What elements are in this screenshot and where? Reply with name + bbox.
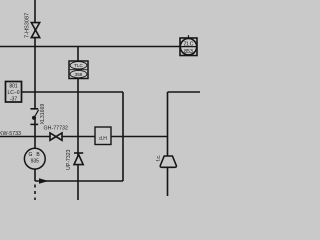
wire horizontal main header line y=46.5 xyxy=(0,46,180,48)
wire vertical line x=78 from header to bottom xyxy=(77,47,79,201)
instrument ZLC 853 (circle in square) xyxy=(180,35,197,55)
wire horizontal signal line y=92 from controller box xyxy=(22,91,124,93)
instrument bubble G B 935 xyxy=(24,148,45,169)
svg-text:UP-7323: UP-7323 xyxy=(66,149,72,170)
controller box 801 LC-0 -37 xyxy=(6,82,22,103)
svg-text:853: 853 xyxy=(184,49,193,55)
svg-text:d.H: d.H xyxy=(99,136,107,142)
instrument TLC 358 (shared display box) xyxy=(69,61,88,79)
svg-text:935: 935 xyxy=(31,158,40,164)
wire dashed vertical continuation below x=35 xyxy=(34,181,36,200)
flow arrow on bottom line xyxy=(39,178,49,184)
wire horizontal process line y=137 xyxy=(0,136,168,138)
wire vertical main line x=35 top segment xyxy=(34,0,36,109)
svg-text:XL31669: XL31669 xyxy=(40,104,46,125)
svg-text:358: 358 xyxy=(75,72,83,77)
seal pot / diaphragm symbol on right line xyxy=(160,156,176,167)
svg-text:801: 801 xyxy=(9,84,18,90)
wire vertical drop x=167.5 from y=92 to seal pot xyxy=(167,92,169,156)
svg-text:f.c.: f.c. xyxy=(156,155,162,162)
svg-text:TLC: TLC xyxy=(74,63,83,68)
check valve UP-7323 (triangle) xyxy=(74,153,83,165)
wire horizontal line y=92 right segment to edge xyxy=(168,91,201,93)
svg-text:ZLC: ZLC xyxy=(184,41,194,47)
svg-text:GH-77732: GH-77732 xyxy=(44,126,68,132)
svg-text:KW-5733: KW-5733 xyxy=(0,131,21,137)
valve 7-HS3087 (vertical bowtie) xyxy=(31,23,39,38)
solenoid XL31669 on line x=35 xyxy=(30,109,38,125)
function box d.H xyxy=(95,127,111,145)
svg-text:LC–0: LC–0 xyxy=(8,90,20,96)
svg-text:G B: G B xyxy=(29,152,42,158)
wire vertical riser x=123 xyxy=(122,92,124,181)
svg-text:-37: -37 xyxy=(10,97,17,103)
wire horizontal bottom line y=181 xyxy=(35,180,123,182)
svg-text:7-HS3087: 7-HS3087 xyxy=(25,13,31,38)
wire vertical main line x=35 lower segment xyxy=(34,118,36,182)
valve GH-77732 (horizontal bowtie) xyxy=(50,133,62,140)
wire vertical below seal pot x=167.5 xyxy=(167,166,169,196)
